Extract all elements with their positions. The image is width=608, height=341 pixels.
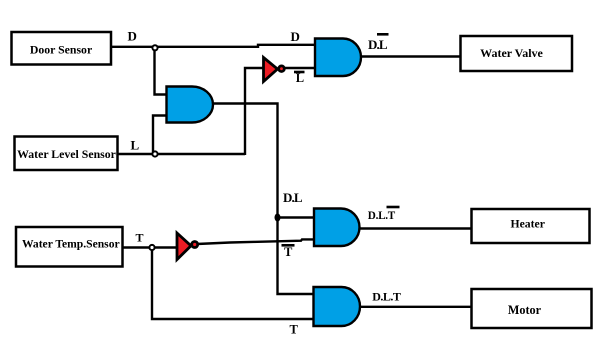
- svg-text:Water Temp.Sensor: Water Temp.Sensor: [22, 238, 120, 251]
- svg-text:D.L: D.L: [283, 190, 303, 205]
- svg-text:D.L: D.L: [368, 37, 388, 52]
- svg-text:L: L: [131, 137, 140, 152]
- svg-text:Door Sensor: Door Sensor: [30, 42, 92, 56]
- svg-text:D.L.T: D.L.T: [368, 210, 396, 222]
- svg-text:Water Valve: Water Valve: [480, 46, 543, 60]
- svg-text:D: D: [291, 29, 300, 44]
- svg-text:Motor: Motor: [508, 303, 542, 317]
- svg-text:D: D: [128, 29, 137, 44]
- svg-text:T: T: [136, 231, 144, 245]
- svg-text:Heater: Heater: [511, 218, 545, 231]
- svg-text:D.L.T: D.L.T: [372, 290, 401, 304]
- svg-text:T: T: [290, 323, 299, 337]
- svg-text:Water Level Sensor: Water Level Sensor: [17, 147, 116, 161]
- svg-text:T: T: [284, 245, 293, 259]
